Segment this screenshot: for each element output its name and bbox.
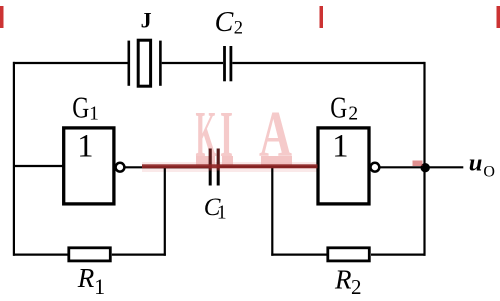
svg-text:C: C	[215, 7, 234, 38]
watermark pink halo band	[142, 162, 318, 172]
crystal J right plate	[159, 41, 162, 86]
wire: bottom horizontal to R2	[271, 254, 328, 256]
resistor R2 box	[328, 248, 370, 261]
wire: bottom-left horizontal to R1	[13, 254, 68, 256]
svg-text:J: J	[141, 8, 152, 33]
svg-text:1: 1	[217, 202, 227, 223]
crystal J body rectangle	[138, 40, 150, 86]
crystal J left plate	[128, 41, 131, 86]
svg-text:2: 2	[234, 19, 243, 39]
wire: G1 input horizontal	[13, 165, 64, 167]
wire: G2 output to uO	[379, 166, 463, 168]
gate G2 output bubble	[371, 163, 380, 172]
capacitor C2 left plate	[223, 46, 226, 81]
svg-text:R: R	[77, 263, 95, 293]
gate G2 box	[318, 128, 369, 204]
capacitor C1 right plate	[217, 149, 220, 186]
wire: right vertical	[423, 62, 425, 256]
hidden watermark stroke left edge	[0, 6, 4, 28]
hidden watermark dash near output node	[413, 161, 423, 167]
wire: C1 to G2 input	[220, 166, 317, 168]
wire: G1 output to C1	[124, 166, 209, 168]
wire: top horizontal right segment	[232, 62, 424, 64]
watermark dark red strikethrough line	[142, 164, 318, 168]
svg-text:2: 2	[348, 103, 358, 124]
svg-text:G: G	[330, 89, 347, 124]
node output junction dot	[421, 163, 430, 172]
gate G1 output bubble	[116, 163, 125, 172]
wire: R1 to junction	[112, 254, 166, 256]
wire: R2 to right vertical	[371, 254, 426, 256]
wire: junction vertical down to R1	[164, 166, 166, 256]
svg-text:1: 1	[94, 274, 105, 299]
hidden watermark stroke middle	[320, 6, 324, 28]
capacitor C2 right plate	[229, 46, 232, 81]
resistor R1 box	[69, 248, 111, 261]
svg-text:1: 1	[332, 128, 348, 164]
gate G1 box	[64, 128, 114, 204]
svg-text:u: u	[469, 150, 483, 177]
capacitor C1 left plate	[209, 149, 212, 186]
hidden watermark stroke right edge	[497, 6, 500, 28]
wire: left vertical	[13, 62, 15, 256]
svg-text:G: G	[72, 89, 89, 124]
svg-text:2: 2	[351, 275, 362, 299]
svg-text:O: O	[483, 163, 495, 180]
wire: junction vertical down to R2	[271, 166, 273, 256]
svg-text:R: R	[334, 264, 352, 294]
watermark red tint over C1 plates	[209, 149, 212, 171]
svg-text:1: 1	[89, 103, 99, 124]
wire: top horizontal left segment	[13, 62, 128, 64]
wire: top horizontal between J and C2	[162, 62, 223, 64]
watermark pink serif feet under letters	[196, 156, 215, 165]
svg-text:1: 1	[77, 128, 93, 164]
